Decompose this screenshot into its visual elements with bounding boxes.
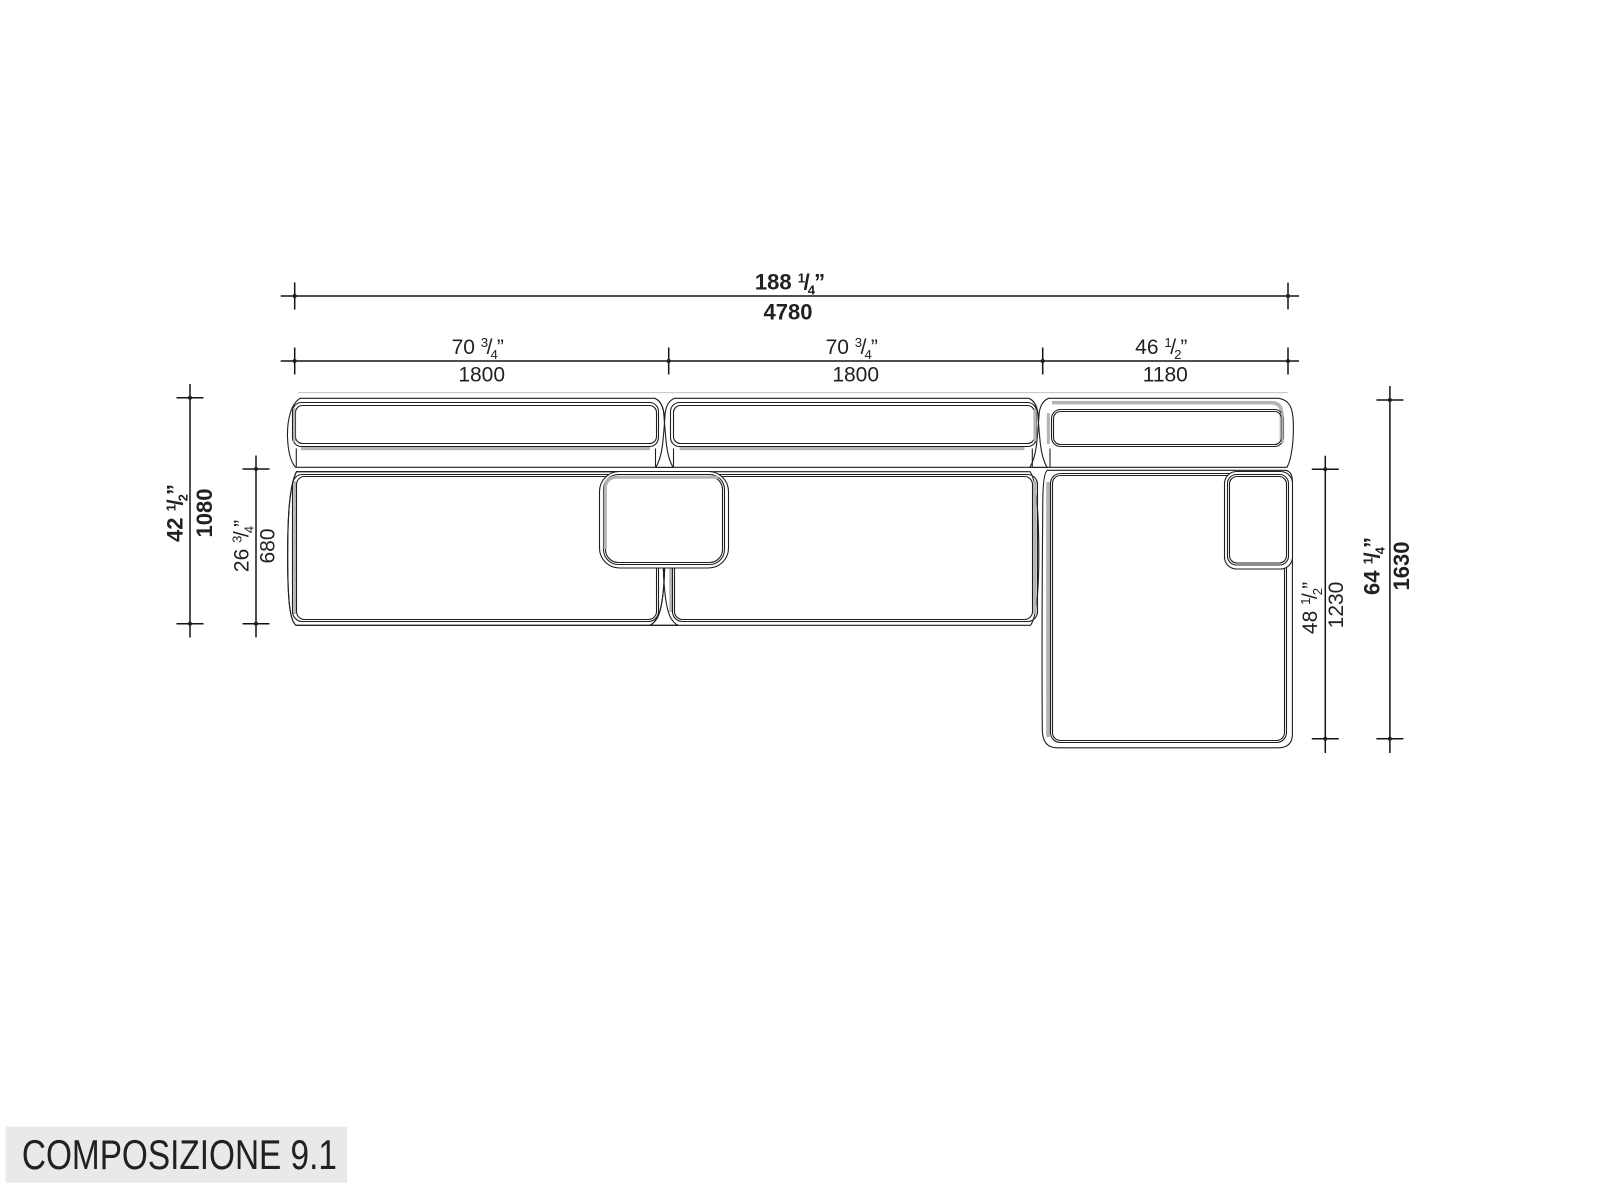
- cushion 1 left gray fill between lines: [293, 408, 295, 442]
- title block: [6, 1127, 347, 1183]
- chaise gray shadow left: [1046, 482, 1050, 737]
- dim C bottom tick: [1312, 738, 1339, 740]
- seat 1 gray shadow left: [293, 481, 296, 614]
- right dim C 48 1/2in 1230: [1324, 456, 1326, 753]
- dim D bottom tick: [1376, 738, 1403, 740]
- BACKREST LAYER: [287, 393, 1293, 468]
- seat 2 inner cushion double rect: [673, 475, 1038, 622]
- seat module 2 outer shell (white fill): [650, 472, 1039, 626]
- backrest gray shadow above cushion 3 + right side: [1052, 403, 1282, 442]
- table T1 on seam of modules 1-2 (white fill + triple border): [600, 472, 729, 569]
- dim B top tick: [243, 468, 270, 470]
- svg-text:42 1/2”: 42 1/2”: [163, 484, 191, 542]
- cushion 3 right gray fill between lines: [1281, 412, 1283, 443]
- sofa back top faint edge: [298, 392, 1288, 394]
- TABLES LAYER: [600, 472, 1293, 570]
- SEATS LAYER: [288, 470, 1293, 748]
- svg-text:1800: 1800: [458, 364, 505, 387]
- back cushion 3 double rect: [1052, 410, 1284, 447]
- svg-text:1630: 1630: [1389, 542, 1414, 591]
- backrest seam line module1 left: [295, 449, 297, 467]
- DIMENSIONS LAYER: [163, 270, 1415, 754]
- svg-text:48 1/2”: 48 1/2”: [1298, 582, 1325, 634]
- dim row2 tick C: [1042, 348, 1044, 375]
- backrest gray shadow under cushion 2: [680, 447, 1025, 450]
- svg-text:1180: 1180: [1143, 364, 1188, 387]
- seat module 1 outer shell (white fill): [288, 472, 678, 626]
- svg-text:46 1/2”: 46 1/2”: [1135, 335, 1187, 362]
- seat 1 inner cushion double rect: [293, 475, 659, 622]
- seat 2 gray shadow left: [669, 478, 672, 612]
- dim D top tick: [1376, 399, 1403, 401]
- chaise seat outer shell (white fill): [1042, 470, 1292, 748]
- dim row2 tick A: [294, 348, 296, 375]
- back cushion 2 double rect: [671, 403, 1037, 447]
- left dim B 26 3/4in 680: [255, 456, 257, 638]
- svg-text:70 3/4”: 70 3/4”: [452, 335, 504, 362]
- backrest gray shadow under cushion 1: [301, 447, 650, 450]
- backrest container module 1 (white fill): [287, 398, 673, 467]
- seat 2 left S-curve re-stroke: [650, 472, 673, 626]
- svg-text:COMPOSIZIONE 9.1: COMPOSIZIONE 9.1: [22, 1131, 337, 1178]
- left dim A 42 1/2in 1080: [189, 384, 191, 638]
- svg-text:4780: 4780: [764, 300, 813, 325]
- svg-text:188 1/4”: 188 1/4”: [755, 270, 825, 298]
- dim A bottom tick: [177, 623, 204, 625]
- re-stroke crossing curves at junction 1: [655, 398, 673, 467]
- dim B bottom tick: [243, 623, 270, 625]
- dim line row 2: 70 3/4 | 70 3/4 | 46 1/2: [281, 360, 1299, 362]
- svg-text:1230: 1230: [1325, 582, 1348, 629]
- backrest container module 3 (white fill): [1030, 398, 1293, 467]
- re-stroke crossing curves at junction 2: [1029, 398, 1047, 467]
- dim row1 left tick: [294, 283, 296, 310]
- seat 1 outer outline redraw: [288, 472, 678, 626]
- svg-text:1080: 1080: [192, 489, 217, 538]
- dim row2 tick B: [668, 348, 670, 375]
- svg-text:64 1/4”: 64 1/4”: [1360, 537, 1388, 595]
- cushion 1 gray shadow left: [293, 410, 296, 441]
- dim A top tick: [177, 397, 204, 399]
- table T1 gray shadow top+left: [605, 477, 718, 549]
- svg-text:1800: 1800: [832, 364, 879, 387]
- cushion 2 right end gray shadow: [1033, 410, 1036, 441]
- dim row2 tick D: [1287, 348, 1289, 375]
- backrest seam lines junction 1: [655, 449, 657, 467]
- seat 2 gray shadow right: [1033, 481, 1036, 614]
- dim row1 right tick: [1287, 283, 1289, 310]
- table T2 on chaise (white fill + triple border): [1225, 472, 1293, 570]
- chaise inner cushion double rect: [1051, 474, 1287, 743]
- cushion 3 left end gray shadow: [1047, 413, 1050, 444]
- backrest container module 2 (white fill): [656, 398, 1047, 467]
- back cushion 1 double rect: [293, 403, 659, 447]
- svg-text:680: 680: [257, 528, 280, 563]
- svg-text:26 3/4”: 26 3/4”: [230, 520, 257, 572]
- dim C top tick: [1312, 468, 1339, 470]
- svg-text:70 3/4”: 70 3/4”: [826, 335, 878, 362]
- backrest seam lines junction 2: [1031, 449, 1033, 467]
- right dim D 64 1/4in 1630: [1389, 386, 1391, 753]
- dim line total width 188 1/4in 4780: [281, 295, 1299, 297]
